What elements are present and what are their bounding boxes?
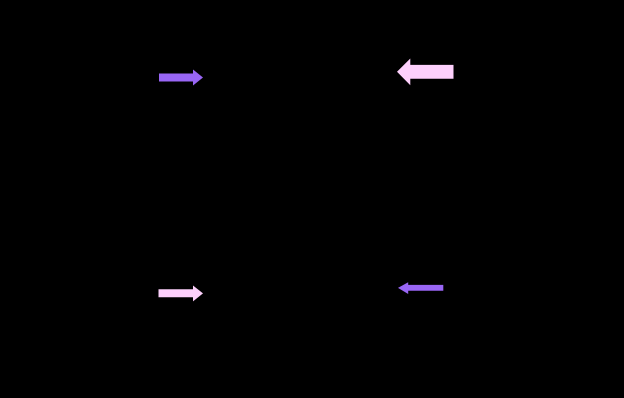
arrow top-left purple right-pointing xyxy=(159,70,203,86)
arrow top-right pink left-pointing xyxy=(397,59,454,86)
arrow bottom-left pink right-pointing xyxy=(159,286,204,302)
arrow bottom-right purple left-pointing xyxy=(398,282,443,294)
